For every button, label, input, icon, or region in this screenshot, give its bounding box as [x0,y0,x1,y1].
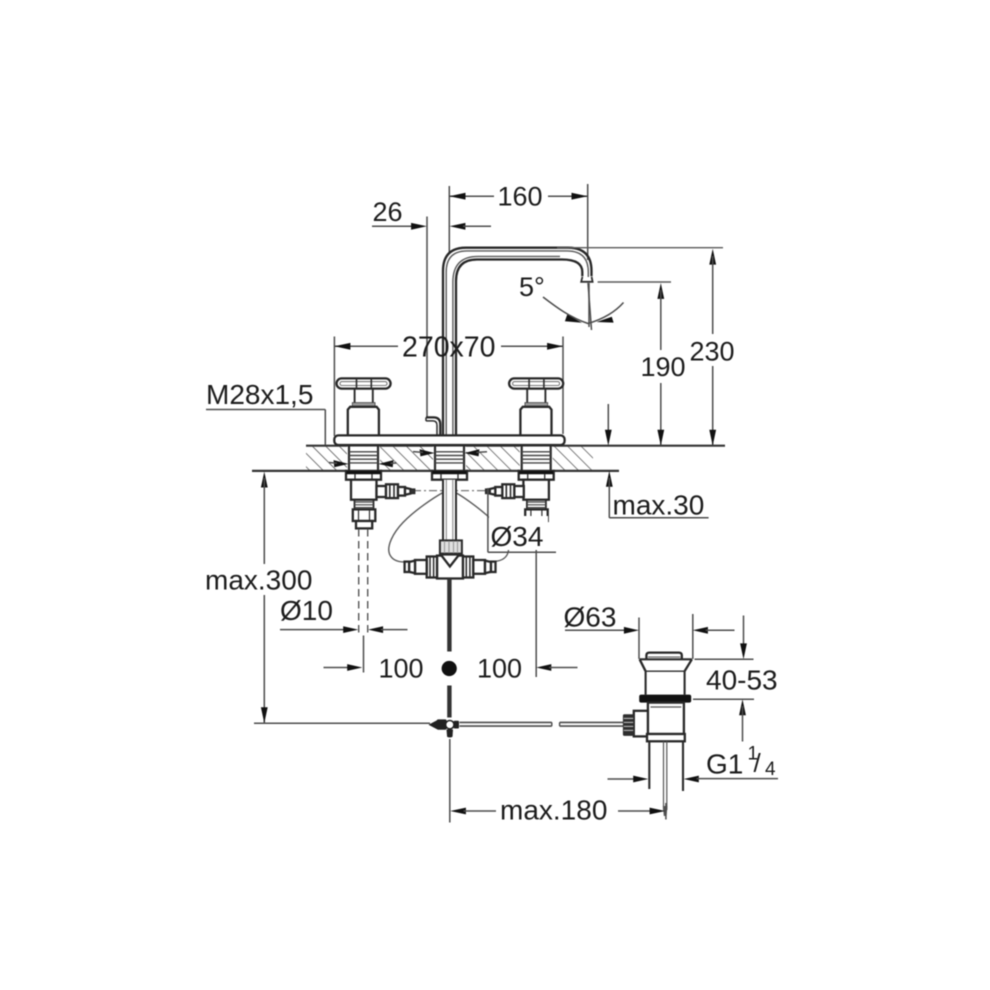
wire: right valve axis extension [535,530,537,677]
funnel V [442,556,459,567]
dimension max.30 [605,404,709,521]
pull-rod hook at spout base [426,417,440,437]
right valve lock nut [525,509,548,521]
right shank threads [519,446,554,480]
svg-text:190: 190 [641,352,686,382]
left handle body [348,407,379,437]
dimension 26 [372,197,491,230]
left valve side port [377,486,387,497]
knurled knob [623,714,634,736]
dimension max.180 [450,795,666,826]
center shank white cutout [433,447,466,471]
dimension 190 [641,283,686,446]
right handle [509,378,563,436]
svg-text:Ø63: Ø63 [564,602,617,633]
center shank mounting nut [432,471,467,480]
svg-text:100: 100 [477,654,522,684]
left valve union nut [386,484,398,498]
supply pipe lower [447,686,451,718]
escutcheon plate [334,435,564,445]
svg-text:max.30: max.30 [613,490,705,521]
center shank threads [432,446,467,480]
drain upper body [645,671,647,694]
5 degree annotation [519,272,624,330]
center point dot [442,661,457,676]
label Ø34 with leader [488,488,556,552]
svg-text:100: 100 [379,654,424,684]
tee body [405,556,496,579]
dimension 230 [690,249,735,446]
hatch arrows left shank [334,460,349,467]
right handle crossbar [509,378,563,388]
svg-text:160: 160 [498,182,543,212]
svg-text:5°: 5° [519,272,545,302]
left valve tailpiece [356,521,372,528]
center tube below deck [443,480,456,541]
wire: bottom reference line [254,722,430,724]
wire: 190 outlet extension line [598,281,671,283]
tee right union [463,557,473,578]
wire: spout axis extension line [448,186,450,252]
right flexible hose [456,493,509,562]
rubber seal [639,695,691,703]
svg-text:max.300: max.300 [205,565,312,596]
tailpipe [648,741,650,789]
tee left union [427,557,437,578]
left handle stem [354,389,356,403]
tilted 5deg axis line [588,283,592,330]
left flexible hose [389,493,443,563]
spout outlet mouth [581,277,592,282]
drain flange [640,658,692,660]
right valve body [486,480,549,529]
left handle [337,378,391,436]
deck bottom line [252,470,619,472]
svg-text:230: 230 [690,337,735,367]
pop-up plug cap [646,653,681,660]
dashed riser pipe Ø10 [358,529,360,634]
dash-dot hose axis line [413,490,487,492]
drain assembly [564,602,735,817]
spout tube outer inner-offset line [446,251,588,438]
svg-text:M28x1,5: M28x1,5 [206,379,313,410]
right valve tailpiece [528,521,544,528]
hatch arrows center shank [420,449,435,456]
wire: 230 top extension line [557,247,723,249]
svg-text:Ø34: Ø34 [491,521,544,552]
deck hatch band [306,447,593,471]
label M28x1,5 with leader [206,379,325,445]
right handle knurled collar [525,403,548,407]
dimension 270x70 [334,332,563,437]
left valve nipple [398,487,405,496]
spout tube inner-wall offset line [453,256,560,437]
leader from 5deg text and angular arc [543,297,624,324]
left handle knurled collar [352,403,375,407]
svg-text:40-53: 40-53 [706,665,778,696]
supply pipe upper [447,579,451,652]
inner pull rod [663,741,665,810]
deck top surface line [306,445,725,447]
pull-rod cross fitting [429,719,460,737]
wire: Ø63 right extension [692,614,694,659]
dimension Ø10 [280,595,408,633]
wire: Ø63 left extension [638,618,640,660]
right shank white cutout [520,447,553,471]
drain lower body [648,703,684,734]
dimension 40-53 [693,616,778,742]
svg-text:270x70: 270x70 [402,332,496,364]
svg-text:26: 26 [373,197,403,227]
left shank mounting nut [346,471,381,480]
compression fitting [440,540,462,553]
right handle stem [526,389,528,403]
wire: faucet centerline lower [449,739,451,823]
left handle crossbar [337,378,391,388]
wire: left valve axis extension [363,636,365,673]
left valve body [351,480,415,529]
svg-text:4: 4 [765,759,776,780]
left shank white cutout [347,447,380,471]
svg-text:/: / [754,748,762,778]
svg-text:max.180: max.180 [500,795,607,826]
right valve union nut [502,484,514,498]
right shank mounting nut [519,471,554,480]
svg-text:G1: G1 [706,749,743,780]
right valve lower threads [526,500,528,510]
lever port [634,711,648,737]
wire: spout tip extension line [587,184,589,260]
dimension 100 100 [324,654,578,684]
slip ring [647,734,685,741]
right handle body [520,407,551,437]
right valve nipple [495,487,502,496]
dimension 160 [449,182,587,212]
left valve lock nut [353,509,376,521]
vertical reference line at outlet [588,283,590,327]
spout tube inner wall path [456,260,582,438]
wire: hook lip extension line [426,217,428,417]
dimension max.300 [205,472,312,723]
horizontal pull rod [460,722,624,726]
svg-text:Ø10: Ø10 [280,595,333,626]
left shank threads [346,446,381,480]
dimension G1 1/4 [608,744,779,783]
right valve side port [514,486,524,497]
left valve lower threads [354,500,356,510]
spout tube outer path [443,248,592,438]
